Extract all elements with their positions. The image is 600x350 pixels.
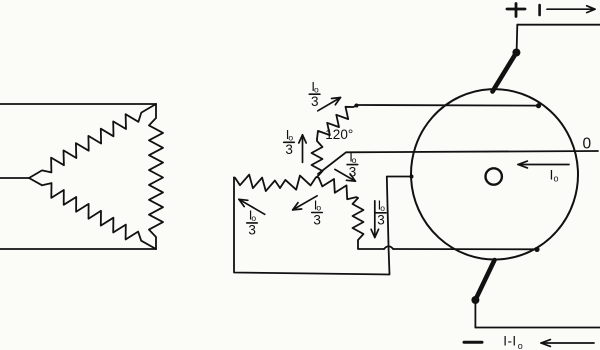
svg-text:o: o bbox=[316, 203, 321, 213]
svg-text:3: 3 bbox=[377, 213, 385, 228]
svg-text:I-I: I-I bbox=[503, 334, 516, 349]
svg-text:o: o bbox=[380, 203, 385, 213]
svg-text:3: 3 bbox=[248, 223, 256, 238]
svg-text:3: 3 bbox=[313, 212, 321, 227]
svg-text:3: 3 bbox=[285, 142, 293, 157]
svg-text:0: 0 bbox=[583, 136, 592, 153]
svg-text:o: o bbox=[352, 155, 357, 165]
svg-text:3: 3 bbox=[311, 94, 319, 109]
svg-text:o: o bbox=[288, 133, 293, 143]
svg-text:o: o bbox=[518, 341, 523, 350]
svg-text:o: o bbox=[554, 174, 559, 184]
svg-text:o: o bbox=[251, 213, 256, 223]
svg-text:120°: 120° bbox=[325, 127, 353, 142]
svg-text:o: o bbox=[314, 84, 319, 94]
